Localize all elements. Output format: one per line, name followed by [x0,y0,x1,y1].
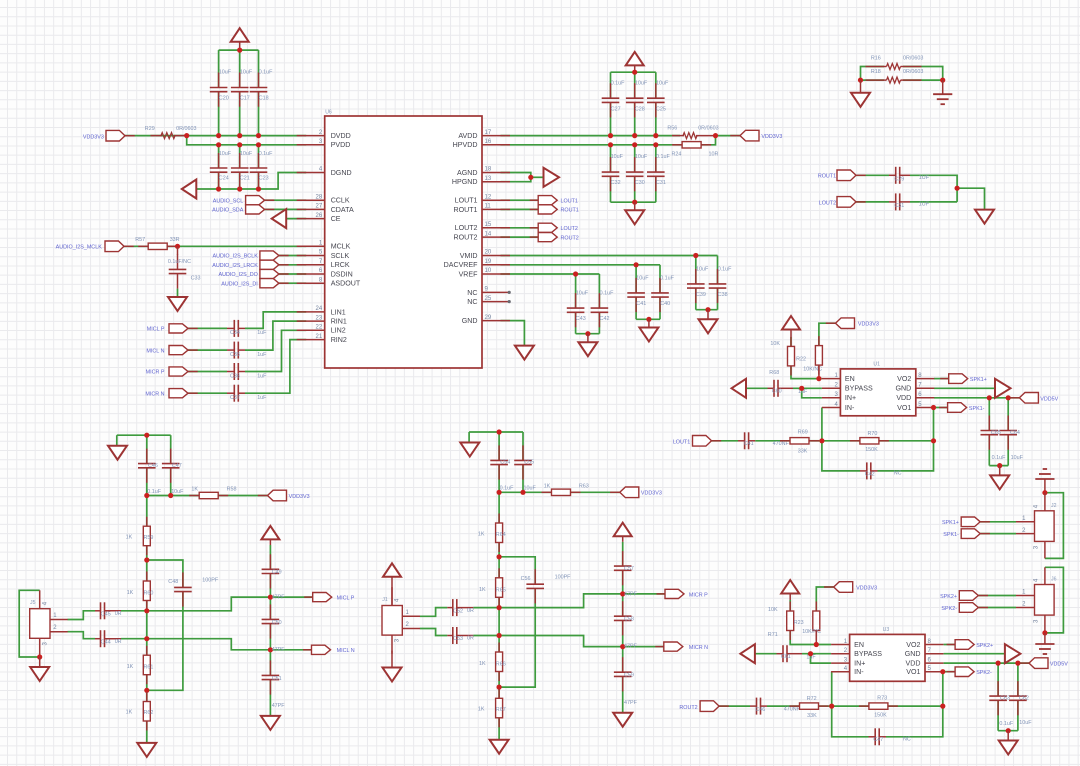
capacitor C31 0.1uF [647,157,665,191]
netflag MICL_P [169,324,198,333]
wire bottom loop left [832,706,869,737]
junction [497,429,502,434]
ground flag below C51 [261,716,280,730]
svg-text:10uF: 10uF [240,69,253,75]
resistor R57 33R [138,243,177,249]
resistor R63 1K [542,489,581,495]
junction [996,661,1001,666]
junction [144,636,149,641]
wire C31 column lower [655,176,657,202]
svg-text:1uF: 1uF [257,352,267,358]
svg-text:MCLK: MCLK [331,243,351,251]
wire LOUT1 wire [501,199,539,201]
svg-text:C51: C51 [272,676,282,682]
netflag VDD3V3 U3 [824,582,853,593]
wire cap bank top rail [611,71,656,73]
wire P row [147,597,325,611]
svg-text:1K: 1K [126,535,133,541]
wire C61 to BYPASS [802,653,831,655]
netflag VDD3V3 right [730,130,759,141]
netflag AUDIO_I2S_LRCK [260,260,289,269]
connector J6 [1035,585,1055,616]
wire VREF rail [501,273,600,275]
ground flag VREF [578,342,597,356]
junction [1006,395,1011,400]
svg-text:C33: C33 [191,275,201,281]
svg-text:1UF: 1UF [919,202,930,208]
svg-text:NC: NC [894,471,902,477]
capacitor C39 10uF [687,269,705,303]
netflag SPK2- [959,603,988,613]
J2 pin4 lead [1044,493,1046,511]
svg-text:SPK1+: SPK1+ [942,520,959,526]
svg-text:C38: C38 [718,292,728,298]
wire MICR_N wire to cap [188,392,227,394]
svg-text:33R: 33R [170,237,180,243]
svg-text:0.1uF: 0.1uF [660,276,674,282]
stub [39,657,41,667]
junction [175,244,180,249]
junction [653,133,658,138]
svg-text:GND: GND [896,385,912,393]
wire chain seg2 [498,543,500,578]
wire to VDD3V3 [571,491,620,493]
svg-text:0R: 0R [115,639,122,645]
capacitor C54 0.1uF [490,445,508,479]
wire bottom loop right [886,706,943,737]
svg-text:ROUT1: ROUT1 [453,206,477,214]
resistor R69 33K [780,438,819,444]
J1 bottom lead [391,651,393,668]
svg-text:0.1uF: 0.1uF [600,290,614,296]
stub [999,466,1001,476]
wire J2 loop [1045,493,1064,559]
junction [814,642,819,647]
svg-text:47PF: 47PF [624,591,638,597]
netflag LOUT2 [837,197,866,208]
svg-text:NC: NC [467,298,477,306]
wire ground rail [197,173,307,190]
wire GND to flag [944,653,1005,655]
svg-text:ROUT1: ROUT1 [561,208,579,214]
wire C23 column [258,145,260,168]
svg-text:10uF: 10uF [171,489,184,495]
earth lead [1044,633,1046,644]
svg-text:18: 18 [485,167,492,173]
wire ROUT1 wire [856,174,889,176]
ground flag DACVREF [639,328,658,342]
gnd stub mid [634,202,636,210]
wire LOUT2 wire [856,201,889,203]
C33 top lead [177,246,179,255]
junction [653,142,658,147]
svg-text:10uF: 10uF [611,154,624,160]
junction [237,48,242,53]
svg-text:1K: 1K [126,710,133,716]
wire node to VO1 [933,408,935,441]
svg-text:C44: C44 [101,639,111,645]
svg-text:0R/0603: 0R/0603 [176,126,196,132]
junction [497,685,502,690]
netflag VDD5V U3 [1019,658,1048,669]
wire C25 column lower [655,102,657,135]
ground flag below C59 [613,713,632,727]
svg-text:AUDIO_SDA: AUDIO_SDA [212,208,244,214]
power flag VDD3V3 top-left [231,28,249,42]
svg-text:0.1uF: 0.1uF [259,151,273,157]
svg-text:R23: R23 [794,620,804,626]
netflag ROUT2 [530,233,558,242]
wire caps bottom rail [998,730,1018,732]
svg-text:MICR N: MICR N [689,645,708,651]
junction [632,133,637,138]
svg-text:C28: C28 [635,106,645,112]
svg-text:10uF: 10uF [219,151,232,157]
resistor R60 1K [143,572,150,611]
svg-text:U3: U3 [883,627,890,633]
svg-text:23: 23 [316,315,323,321]
capacitor C28 10uF [626,83,644,117]
wire DVDD rail [125,135,306,137]
wire BYPASS to IN+ [811,654,832,663]
J6 pin3 lead [1044,615,1046,633]
svg-text:10uF: 10uF [635,154,648,160]
svg-text:0.1uF: 0.1uF [992,455,1006,461]
wire cap bank bottom rail [611,201,656,203]
junction [256,186,261,191]
junction [931,405,936,410]
wire C29 to junction [910,175,957,202]
wire C33 to ground [177,289,179,297]
svg-text:RIN2: RIN2 [331,336,347,344]
resistor R59 1K [143,517,150,555]
wire MCLK wire [124,245,148,247]
capacitor C21 10uF [231,153,249,187]
capacitor C49 47PF [262,554,280,588]
wire C38 column [717,256,719,284]
capacitor C32 10uF [602,157,620,191]
junction [632,142,637,147]
svg-text:VO1: VO1 [906,668,920,676]
wire flag to R71 [789,600,791,612]
wire 100PF branch bottom [147,592,183,691]
svg-text:21: 21 [316,334,323,340]
wire C47 column [170,435,172,463]
svg-text:R64: R64 [496,532,506,538]
netflag MICL_N [169,346,198,355]
wire C43 column lower [575,312,577,333]
svg-text:C59: C59 [624,673,634,679]
capacitor C18 0.1uF [250,73,268,107]
junction [1042,630,1047,635]
J2 pin3 lead [1044,541,1046,558]
svg-text:CCLK: CCLK [331,197,350,205]
svg-text:C35: C35 [230,352,240,358]
capacitor C37 1uF [227,385,245,402]
svg-text:1K: 1K [479,661,486,667]
wire SPK2+ wire [978,595,1016,597]
wire 100PF branch top [147,560,183,587]
junction [497,554,502,559]
junction [940,704,945,709]
svg-text:10R: 10R [709,151,719,157]
svg-text:C20: C20 [219,96,229,102]
earth ground below J6 [1035,644,1054,654]
svg-text:HPGND: HPGND [452,178,478,186]
svg-text:19: 19 [485,259,492,265]
wire gnd to C61 [755,653,777,655]
svg-text:C49: C49 [272,569,282,575]
wire VO1 wire [944,671,956,673]
netflag VDD3V3 U1 [826,318,855,329]
svg-text:C21: C21 [240,176,250,182]
resistor R66 1K [496,643,503,682]
J6 pin4 lead [1044,567,1046,584]
svg-text:J1: J1 [382,597,388,603]
ground flag DGND rail [182,180,197,199]
wire C41 column lower [635,297,637,319]
svg-text:VDD3V3: VDD3V3 [289,494,310,500]
earth ground right of R18 [933,94,952,104]
wire C25 column [655,72,657,98]
power stub [269,539,271,545]
wire N row [147,639,324,650]
resistor R62 1K [143,692,150,731]
power flag stub mid [634,66,636,72]
wire C30 column [634,145,636,172]
svg-text:0R/0603: 0R/0603 [698,126,718,132]
wire C55 column [522,432,524,460]
svg-text:VDD3V3: VDD3V3 [856,586,877,592]
svg-text:SPK2+: SPK2+ [940,594,957,600]
wire C18 column [258,50,260,87]
svg-text:10K/NC: 10K/NC [802,629,821,635]
wire CDATA wire [265,208,307,210]
svg-text:J6: J6 [1051,577,1057,583]
svg-text:C50: C50 [272,620,282,626]
capacitor C17 10uF [231,73,249,107]
svg-text:J2: J2 [1051,503,1057,509]
svg-text:SPK1+: SPK1+ [970,377,987,383]
svg-text:R66: R66 [496,661,506,667]
svg-text:1K: 1K [127,664,134,670]
wire C17 column [239,50,241,87]
resistor R18 0R/0603 [866,77,922,83]
resistor R56 0R/0603 [683,133,697,139]
svg-text:R22: R22 [796,357,806,363]
svg-text:10uF: 10uF [219,69,232,75]
wire node to IN- [831,672,833,706]
svg-text:13: 13 [485,176,492,182]
capacitor C31 1UF [889,193,910,210]
wire col seg4 [622,676,624,712]
wire R18 row left [861,79,885,81]
capacitor C58 47PF [614,601,632,635]
netflag SPK1+ [961,517,990,527]
svg-text:DGND: DGND [331,169,352,177]
wire AGND wire [501,173,531,182]
svg-text:470NF: 470NF [773,441,790,447]
wire left drop to ground [116,435,118,446]
svg-text:C61: C61 [781,654,791,660]
junction [858,78,863,83]
svg-text:1uF: 1uF [257,330,267,336]
wire to ground [957,188,984,209]
svg-text:C42: C42 [865,471,875,477]
NC pin 25 open dot [508,300,511,303]
svg-text:0R/0603: 0R/0603 [903,69,923,75]
svg-text:C34: C34 [230,330,240,336]
power stub [789,593,791,600]
junction [705,307,710,312]
netflag VDD5V U1 [1010,393,1039,404]
op-amp U1 speaker amplifier [840,369,915,416]
svg-text:C65: C65 [991,430,1001,436]
netflag ROUT1 [837,170,866,181]
wire CCLK wire [265,199,307,201]
power flag VDD3V3 at U1 [782,316,800,330]
capacitor C30 10uF [626,157,644,191]
wire LOUT1 to C41i [712,440,739,442]
wire bias row [499,491,551,493]
wire MICR_P wire to cap [188,371,227,373]
wire R68 to EN [791,366,816,379]
connector J5 microphone [30,609,50,639]
svg-text:0R: 0R [467,636,474,642]
capacitor C43 10uF [567,293,585,327]
svg-text:AVDD: AVDD [458,132,477,140]
capacitor C34 1uF [227,320,245,337]
ground flag U1 caps [990,475,1009,489]
junction [237,133,242,138]
wire VO2 to SPK2+ [944,644,956,646]
svg-text:LOUT2: LOUT2 [455,224,478,232]
junction [585,331,590,336]
wire caps bottom rail [989,465,1008,467]
wire VREF gnd rail [576,333,600,335]
ground flag U6 GND [515,346,534,360]
wire C46 column lower [146,468,148,496]
wire pin2 bend [420,629,448,636]
svg-text:DACVREF: DACVREF [444,261,479,269]
wire DACVREF gnd rail [636,318,660,320]
svg-text:AUDIO_I2S_LRCK: AUDIO_I2S_LRCK [212,263,258,269]
wire C42 column lower [598,312,600,333]
svg-text:U6: U6 [325,110,332,116]
resistor R64 1K [496,514,503,553]
junction [955,186,960,191]
svg-text:LOUT1: LOUT1 [455,197,478,205]
capacitor C53 0R [447,627,473,644]
svg-text:LOUT2: LOUT2 [819,200,836,206]
wire col seg2 [269,574,271,620]
svg-text:ROUT1: ROUT1 [818,174,836,180]
junction [497,605,502,610]
svg-text:SPK2+: SPK2+ [976,643,993,649]
svg-text:10uF: 10uF [1011,455,1024,461]
svg-text:IN-: IN- [854,668,864,676]
svg-text:U1: U1 [873,361,880,367]
capacitor C41 470NF [738,432,755,449]
wire C63 column [997,663,999,696]
ground flag U1 bypass [732,379,747,398]
ground flag below C33 [168,297,187,311]
capacitor C59 47PF [614,657,632,691]
wire node to VO1 [942,672,944,706]
svg-text:R29: R29 [145,126,155,132]
svg-text:R58: R58 [227,487,237,493]
svg-text:C52: C52 [453,608,463,614]
svg-text:SPK2-: SPK2- [941,606,957,612]
ground flag below R18 [851,93,870,107]
wire C62 column lower [1017,700,1019,730]
stub [707,310,709,320]
svg-text:C41: C41 [744,441,754,447]
capacitor C41 10uF [627,278,645,312]
capacitor C47 10uF [162,449,180,483]
svg-text:GND: GND [462,317,478,325]
svg-text:0.1uF: 0.1uF [147,489,161,495]
capacitor C55 10uF [514,445,532,479]
capacitor C20 10uF [210,73,228,107]
svg-text:MICR P: MICR P [689,592,708,598]
resistor R16 0R/0603 [866,64,922,70]
wire LOUT2 wire [501,227,539,229]
svg-text:C46: C46 [148,463,158,469]
svg-text:R61: R61 [144,665,154,671]
junction [1006,728,1011,733]
wire C17 column lower [239,92,241,136]
wire ROUT2 to C46 [719,705,750,707]
wire R73 to node [888,705,943,707]
svg-text:100PF: 100PF [555,574,572,580]
svg-text:R69: R69 [798,429,808,435]
svg-text:VDD: VDD [896,394,911,402]
svg-text:10K: 10K [770,341,780,347]
svg-text:VMID: VMID [460,252,478,260]
capacitor C23 0.1uF [250,153,268,187]
netflag SPK2+ [947,640,975,650]
capacitor C50 47PF [262,604,280,638]
svg-text:47PF: 47PF [272,595,286,601]
wire AUDIO_I2S_DO wire [279,273,306,275]
svg-text:R70: R70 [868,431,878,437]
capacitor C36 1uF [227,363,245,380]
wire pin1 bend [420,608,448,617]
svg-text:AUDIO_I2S_DI: AUDIO_I2S_DI [221,281,258,287]
wire SPK1- wire [980,533,1016,535]
svg-text:AUDIO_SCL: AUDIO_SCL [213,198,244,204]
wire C41i to R69 [755,440,790,442]
wire 100PF branch bottom [499,588,535,687]
svg-text:AUDIO_I2S_BCLK: AUDIO_I2S_BCLK [213,254,259,260]
netflag MICR_N [169,389,198,398]
wire AVDD rail [501,135,681,137]
junction [216,186,221,191]
wire R24 up link [701,136,715,145]
wire C32 column lower [610,176,612,202]
wire MICL_N wire to cap [188,349,227,351]
wire C28 column [634,72,636,98]
netflag VDD3V3 R58 [258,490,287,501]
junction [144,557,149,562]
svg-text:24: 24 [316,306,323,312]
capacitor C62 10uF [1009,681,1027,715]
svg-text:MICL P: MICL P [147,327,165,333]
junction [608,133,613,138]
svg-text:10uF: 10uF [696,267,709,273]
svg-text:R72: R72 [807,696,817,702]
